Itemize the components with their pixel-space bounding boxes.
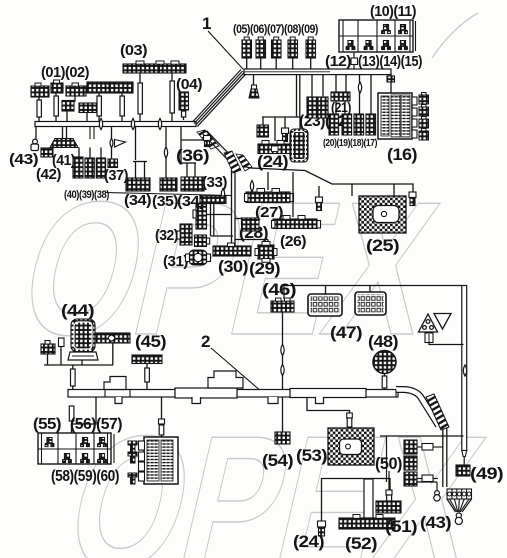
wire (52) tube: [364, 479, 373, 518]
fusebox (55)-(60): [38, 433, 111, 464]
wire stub (28): [235, 218, 242, 220]
block side pin: [128, 441, 137, 452]
wire legs (21): [335, 75, 337, 93]
wire (45) stem: [146, 364, 148, 390]
wire drop (27): [267, 172, 269, 190]
connector (45) strip: [132, 355, 162, 364]
wire gather y365: [44, 364, 113, 366]
wire legs (23): [311, 75, 313, 98]
wire pair to bottom-right: [442, 428, 444, 487]
bundle down wires: [203, 134, 227, 159]
bundle wrap patch b: [236, 154, 252, 171]
svg-text:(21): (21): [331, 100, 351, 115]
connector (21): [331, 92, 350, 101]
bulb (43) top-left: [31, 139, 39, 150]
svg-text:(26): (26): [280, 233, 307, 250]
connector (05): [242, 40, 252, 58]
leader line 2: [211, 348, 262, 392]
wire leg (05): [246, 58, 248, 69]
connector (09): [306, 40, 316, 58]
connector (49): [456, 465, 470, 476]
svg-text:(16): (16): [387, 145, 417, 164]
connector (29): [258, 245, 274, 259]
block lug: [139, 452, 145, 461]
wire leg conn02: [67, 96, 75, 121]
wire main mid run: [242, 166, 410, 184]
clamp on (18) leg: [358, 82, 361, 93]
bulb holder mid: [316, 197, 323, 211]
wire leg conn row1 d: [98, 93, 100, 121]
connector strip right of (44): [95, 333, 130, 343]
fuse cavity glyph: [80, 454, 89, 463]
wire (46) long drop: [282, 312, 284, 389]
connector (01) a: [31, 86, 49, 97]
svg-text:(44): (44): [61, 301, 94, 320]
connector row1 d: [87, 82, 109, 93]
ECU block (16): [378, 93, 412, 139]
watermark fragment top right: [432, 13, 478, 58]
connector (40): [73, 157, 83, 178]
(16) side connector: [419, 105, 429, 117]
block lug: [139, 441, 145, 450]
wire drop (25) b: [393, 184, 395, 196]
clamp on (35) stem: [164, 147, 167, 158]
wire cross y436: [380, 435, 464, 437]
lamp unit (25): [359, 196, 406, 233]
wire drop (50): [386, 436, 388, 482]
fuse cavity glyph: [97, 454, 106, 463]
(16) side lug: [412, 130, 417, 138]
pin connector: [282, 128, 289, 142]
clip connector: [204, 136, 211, 147]
clamp on bus1: [99, 118, 102, 129]
wire cross y236: [211, 235, 234, 237]
connector row1 e: [110, 82, 133, 93]
leg tube: [138, 83, 142, 114]
wire pin stem: [60, 347, 62, 366]
trunk hat 2: [208, 371, 243, 388]
connector (07): [272, 40, 282, 58]
wire drop (26): [292, 172, 294, 217]
connector (17-20): [354, 114, 364, 135]
connector (38): [96, 158, 105, 178]
connector (28) a: [242, 218, 251, 231]
wire (04) leg: [183, 110, 185, 120]
connector (02): [66, 86, 86, 96]
bundle rise wires: [193, 70, 242, 123]
wire legs (20)(19): [335, 101, 337, 114]
leg tube: [170, 81, 174, 113]
connector (47) b: [355, 292, 386, 315]
connector (03) strip: [123, 64, 186, 73]
wrap on (16) feed: [387, 76, 395, 82]
connector (24) strip: [258, 144, 296, 154]
svg-text:(30): (30): [218, 257, 248, 276]
drop pin: [159, 419, 165, 424]
wire drop pair to (24) area: [296, 75, 298, 118]
clamp on bus1: [158, 118, 161, 129]
wire flag link: [429, 343, 464, 345]
connector (17-20): [366, 114, 376, 135]
connector (08): [288, 40, 298, 58]
trunk clamp tab: [115, 397, 122, 404]
(16) side connector: [419, 129, 429, 141]
bulb fan: [455, 513, 462, 525]
wire leg conn01a: [38, 97, 40, 121]
svg-text:(35): (35): [152, 193, 179, 210]
flag stem: [425, 333, 433, 343]
wire leg small conn: [86, 112, 88, 121]
wire cross y214: [206, 214, 231, 216]
trunk clamp tab: [316, 397, 324, 404]
svg-text:(24): (24): [293, 532, 324, 551]
leg tube: [97, 96, 101, 116]
svg-text:(03): (03): [120, 42, 148, 59]
stem tube: [145, 368, 150, 382]
wire right end drop: [410, 184, 413, 192]
connector (30) strip: [213, 246, 251, 256]
lamp unit (53): [328, 428, 374, 465]
wire stems trapezoid: [62, 127, 64, 139]
wire leg conn01b: [55, 93, 57, 121]
fuse cavity glyph: [45, 438, 54, 447]
leg tube: [120, 96, 124, 116]
(16) side connector: [419, 93, 429, 105]
connector (54): [275, 432, 290, 444]
relay (44): [71, 319, 95, 352]
svg-text:(32): (32): [155, 227, 178, 244]
wire stems (39)(38): [78, 148, 80, 159]
svg-text:(43): (43): [420, 513, 451, 532]
wire leg (06): [260, 58, 262, 69]
trunk clamp tab: [268, 397, 278, 404]
(16) side connector: [419, 117, 429, 129]
connector (06): [256, 40, 266, 58]
trunk divisions: [105, 390, 366, 398]
wire trunk main: [68, 390, 398, 398]
fuse cavity glyph: [381, 25, 390, 34]
fuse cavity glyph: [80, 438, 89, 447]
svg-text:(58)(59)(60): (58)(59)(60): [51, 468, 119, 485]
connector (50) a: [404, 440, 417, 454]
svg-text:(36): (36): [176, 146, 209, 165]
connector block bottom-center: [144, 437, 178, 484]
svg-text:(37): (37): [104, 167, 128, 184]
wire drop pin: [284, 117, 286, 128]
wire drop bulb (mid): [318, 186, 320, 197]
connector (01) b: [51, 83, 63, 93]
stem tube: [71, 369, 76, 386]
stem tube: [382, 376, 387, 388]
wire bus to (16): [389, 75, 391, 94]
svg-text:(33): (33): [202, 174, 227, 191]
svg-text:(48): (48): [368, 332, 398, 351]
pin left of (44): [59, 338, 65, 347]
bracket (50) lower: [417, 478, 422, 480]
fan converge: [450, 499, 458, 512]
wire down to trunk: [72, 365, 74, 389]
small connector mid: [79, 103, 97, 113]
svg-text:(43): (43): [9, 151, 39, 168]
connector (51): [376, 501, 401, 513]
connector (42): [41, 148, 53, 157]
wire stem (37): [111, 127, 113, 160]
svg-text:(10)(11): (10)(11): [370, 3, 416, 20]
wire leg conn row1 e: [121, 93, 123, 121]
trunk tall segment: [175, 388, 237, 398]
trunk2 inner wire: [244, 71, 330, 73]
svg-text:(47): (47): [330, 323, 362, 342]
wire stem (34)L: [135, 127, 137, 160]
leg tube: [182, 111, 186, 117]
fuse cavity glyph: [364, 41, 373, 50]
leader line 1: [208, 31, 243, 69]
wire drop to (24): [274, 117, 276, 141]
pin (51): [386, 490, 392, 495]
svg-text:(34): (34): [177, 193, 205, 210]
stem tube: [159, 425, 164, 435]
clamp on bus1: [131, 118, 134, 129]
svg-text:(45): (45): [135, 332, 166, 351]
wire (53) feed: [307, 397, 350, 428]
connector (17-20): [342, 114, 352, 135]
connector (35): [160, 178, 177, 191]
wire bar over (34)L: [133, 161, 147, 163]
clamp on (46) drop: [281, 364, 284, 375]
wire to lamp (43): [35, 126, 37, 139]
fuse cavity glyph: [97, 438, 106, 447]
svg-text:(42): (42): [36, 166, 61, 183]
(16) side lug: [412, 97, 417, 105]
fan connector top: [447, 489, 472, 499]
wire leg (09): [310, 58, 312, 69]
wire manifold y117: [262, 116, 300, 118]
trunk clamp tab: [192, 397, 201, 404]
connector (17-20): [329, 114, 339, 135]
fuse cavity glyph: [381, 41, 390, 50]
fusebox (10)(11): [339, 20, 413, 52]
clamp right tube: [463, 365, 466, 376]
connector (34) left: [126, 178, 150, 191]
wire (48) stem: [384, 373, 386, 389]
svg-text:(12): (12): [325, 53, 352, 70]
connector (28) b: [251, 218, 260, 231]
wire leg (17): [370, 75, 372, 115]
connector (31): [189, 250, 207, 265]
connector (34) right: [181, 177, 204, 191]
wire drop bulb conn: [253, 75, 255, 89]
leg tube conn01b: [54, 96, 58, 116]
small connector right: [195, 235, 207, 247]
block lug: [139, 472, 145, 481]
connector stack upper: [196, 204, 207, 229]
svg-text:(05)(06)(07)(08)(09): (05)(06)(07)(08)(09): [233, 22, 318, 36]
wire bar (34)R: [181, 162, 196, 164]
connector (26) strip: [273, 219, 317, 229]
wire left conn stem: [47, 354, 49, 365]
tall connector above (24): [290, 129, 308, 162]
svg-text:(29): (29): [249, 259, 280, 278]
svg-text:(31): (31): [163, 253, 188, 270]
connector (23) a: [307, 97, 317, 118]
connector (47) a: [308, 294, 342, 316]
svg-text:(13)(14)(15): (13)(14)(15): [358, 53, 422, 70]
wire top loop: [284, 286, 462, 300]
wire stem (34R): [180, 127, 182, 163]
bundle wrap lower: [197, 130, 219, 149]
wire (03) right leg: [171, 73, 173, 121]
wire trunk2 (upper harness run): [244, 69, 391, 75]
svg-text:(46): (46): [262, 280, 296, 299]
block lug: [139, 462, 145, 471]
svg-text:(53): (53): [296, 446, 327, 465]
fuse cavity glyph: [398, 41, 407, 50]
connector below (02): [62, 101, 74, 112]
leg tube conn01a: [37, 100, 41, 117]
svg-text:(34): (34): [124, 192, 152, 209]
connector (04): [179, 92, 189, 110]
bulb connector: [249, 85, 259, 98]
connector (37): [108, 159, 118, 168]
flag triangles: [419, 314, 452, 333]
wire stem (47)b: [369, 286, 371, 293]
wire stem (47)a: [325, 286, 327, 295]
clamp on mid-run: [250, 180, 253, 191]
connector (27) strip: [246, 192, 290, 203]
connector (32): [180, 224, 192, 245]
wire leg (07): [275, 58, 277, 69]
svg-text:(01)(02): (01)(02): [41, 64, 89, 81]
clamp on link: [221, 188, 224, 199]
wire relay stem: [81, 360, 83, 365]
bulb holder right: [409, 192, 416, 206]
wire pair main down: [231, 170, 233, 246]
connector (33) strip: [200, 196, 226, 204]
clip symbol (37): [110, 138, 113, 147]
connector (46): [271, 301, 294, 312]
wire drop to (55) grid: [72, 397, 97, 433]
wire stem (35): [165, 127, 167, 178]
svg-text:(04): (04): [176, 76, 203, 93]
stem tube: [69, 406, 74, 421]
svg-text:(20)(19)(18)(17): (20)(19)(18)(17): [323, 137, 377, 149]
connector (24) bottom: [318, 521, 326, 536]
wire (03) left leg: [139, 73, 141, 121]
svg-text:(50): (50): [375, 454, 402, 473]
connector (50) b: [404, 456, 417, 470]
elbow wrap hatch: [426, 394, 449, 430]
connector (50) c: [404, 472, 417, 486]
block side pin: [128, 452, 137, 463]
svg-text:(52): (52): [345, 534, 377, 553]
svg-text:(55): (55): [33, 416, 61, 433]
svg-text:(51): (51): [385, 517, 417, 536]
wire leg (08): [292, 58, 294, 69]
wire loop bottom: [322, 479, 391, 522]
wire (51) stem: [388, 471, 390, 490]
wire to bulb: [416, 481, 437, 483]
connector (52) strip: [339, 518, 395, 529]
svg-text:(54): (54): [262, 451, 293, 470]
trunk hat 1: [104, 377, 126, 390]
connector nr (24): [257, 125, 269, 137]
bulb small: [434, 491, 440, 501]
bundle wrap patch a: [224, 151, 241, 173]
svg-text:1: 1: [202, 14, 211, 33]
wire pair below (33): [210, 203, 212, 236]
trunk elbow: [396, 390, 439, 426]
connector (39): [85, 158, 94, 178]
small connector left of (44): [41, 344, 55, 354]
svg-text:(40)(39)(38): (40)(39)(38): [64, 189, 110, 201]
clamp on (46) drop: [281, 344, 284, 355]
(16) side lug: [412, 108, 417, 116]
bracket (50): [417, 446, 422, 448]
fuse cavity glyph: [62, 454, 71, 463]
wire drop (25) a: [351, 184, 353, 196]
wire stem tall conn: [299, 117, 301, 129]
wire drop center block: [161, 397, 163, 437]
connector (41) trapezoid: [50, 139, 78, 148]
block side pin: [128, 473, 137, 484]
svg-text:(49): (49): [470, 464, 503, 483]
wire branch clip: [181, 139, 203, 141]
connector square on leg: [353, 52, 355, 69]
sensor (48): [373, 351, 396, 374]
wire long link y194: [106, 193, 231, 196]
fuse cavity glyph: [346, 41, 355, 50]
svg-text:(56)(57): (56)(57): [70, 416, 122, 433]
fuse cavity glyph: [398, 25, 407, 34]
wire drop small conn: [262, 117, 264, 125]
feed pin: [347, 413, 353, 418]
wire strip stem: [112, 343, 114, 365]
svg-text:(25): (25): [366, 236, 399, 255]
(16) side lug: [412, 119, 417, 127]
svg-text:2: 2: [201, 332, 210, 351]
wire bus1 (top-left harness run): [35, 122, 196, 127]
connector (23) b: [318, 97, 328, 118]
wire leg (18): [359, 75, 361, 115]
